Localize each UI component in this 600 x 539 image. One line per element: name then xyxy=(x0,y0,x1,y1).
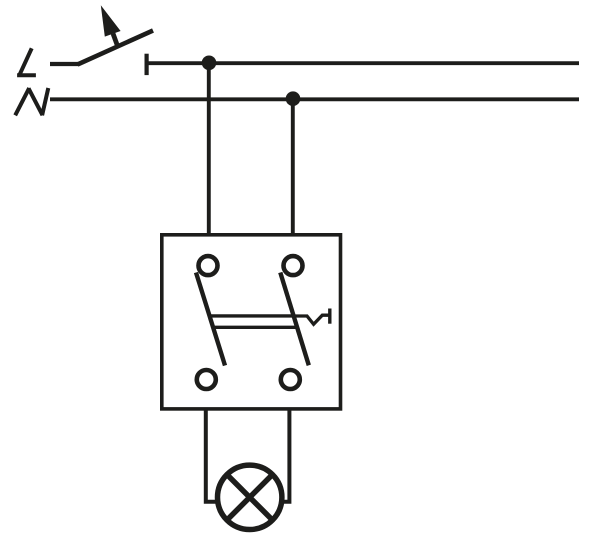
switch S1 actuator arrowhead xyxy=(101,5,121,36)
coupling bar lower xyxy=(212,326,298,329)
switch S1 fixed contact xyxy=(145,54,149,75)
node L label xyxy=(17,48,36,75)
return spring zigzag xyxy=(294,315,330,324)
lamp E1 cross stroke 2 xyxy=(227,475,272,520)
coupling bar upper xyxy=(209,314,295,317)
terminal 1 top-left xyxy=(199,256,218,275)
terminal 4 bottom-right xyxy=(281,370,300,389)
pole 2 moving blade xyxy=(280,273,309,366)
lamp E1 cross stroke 1 xyxy=(227,475,272,520)
wire box to lamp left xyxy=(206,409,216,502)
lamp E1 circle xyxy=(218,465,282,529)
wire N drop to box xyxy=(291,99,295,235)
wire box to lamp right xyxy=(284,409,290,502)
junction dot on L xyxy=(202,56,217,71)
pole 1 moving blade xyxy=(196,273,225,366)
switch box outline xyxy=(162,235,341,409)
return spring end stop xyxy=(328,309,331,324)
wire line L xyxy=(148,61,579,65)
node N label xyxy=(15,88,48,115)
wire L drop to box xyxy=(207,63,211,235)
wire L stub xyxy=(50,62,79,66)
junction dot on N xyxy=(286,91,301,106)
switch S1 actuator arrow shaft xyxy=(113,34,118,47)
switch S1 blade xyxy=(78,31,154,65)
wire line N xyxy=(50,97,579,101)
terminal 3 bottom-left xyxy=(197,370,216,389)
terminal 2 top-right xyxy=(284,256,303,275)
